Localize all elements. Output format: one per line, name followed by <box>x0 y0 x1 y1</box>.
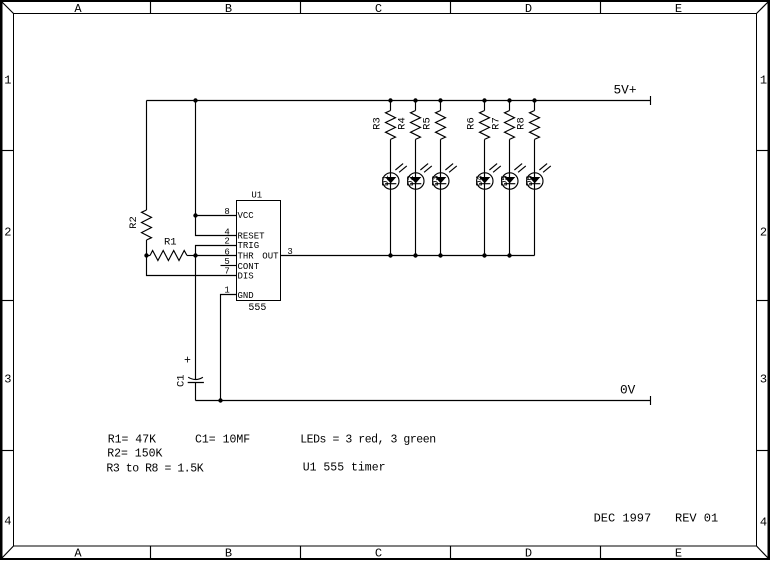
svg-text:R2= 150K: R2= 150K <box>107 448 162 461</box>
svg-text:D6: D6 <box>525 175 535 186</box>
svg-text:DEC 1997: DEC 1997 <box>594 512 652 526</box>
wire LED D6 to output bus <box>534 189 536 256</box>
U1 555 timer IC body <box>237 190 281 314</box>
junction dot output bus / D4 <box>482 253 486 257</box>
svg-text:C1= 10MF: C1= 10MF <box>195 434 250 447</box>
junction dot 5V+ rail / R5 <box>438 98 442 102</box>
svg-text:0V: 0V <box>620 382 636 397</box>
wire VCC pin 8 <box>196 215 237 217</box>
wire GND pin 1 to 0V rail <box>221 295 237 401</box>
resistor R1 <box>147 236 196 260</box>
wire R3 to LED D1 <box>390 139 392 173</box>
svg-text:GND: GND <box>238 291 254 301</box>
resistor R5 <box>422 111 446 140</box>
svg-text:5: 5 <box>224 257 229 267</box>
svg-text:555: 555 <box>248 303 266 314</box>
svg-text:R7: R7 <box>491 117 503 130</box>
resistor R4 <box>397 111 421 140</box>
svg-text:8: 8 <box>224 207 229 217</box>
junction dot output bus / D2 <box>413 253 417 257</box>
LED D4 <box>475 164 501 190</box>
junction dot output bus / D1 <box>388 253 392 257</box>
svg-text:VCC: VCC <box>238 211 255 221</box>
wire output bus pin 3 <box>281 255 535 257</box>
wire rail to R8 <box>534 101 536 111</box>
wire 5V+ rail down to R2 <box>146 101 148 211</box>
svg-text:U1: U1 <box>251 190 262 200</box>
svg-text:7: 7 <box>224 266 229 276</box>
node 5V+ rail <box>147 83 651 105</box>
resistor R3 <box>372 111 396 140</box>
wire R4 to LED D2 <box>415 139 417 173</box>
wire CONT pin 5 stub <box>221 265 237 267</box>
svg-text:D3: D3 <box>431 175 441 186</box>
junction dot 0V rail / GND branch <box>218 398 222 402</box>
svg-text:B: B <box>225 547 232 560</box>
junction dot output bus / D5 <box>507 253 511 257</box>
wire LED D3 to output bus <box>440 189 442 256</box>
svg-text:4: 4 <box>760 515 767 529</box>
wire C1 to 0V rail <box>195 383 197 401</box>
resistor R2 <box>128 210 152 240</box>
svg-text:R4: R4 <box>397 117 409 130</box>
capacitor C1 <box>175 355 204 388</box>
wire R7 to LED D5 <box>509 139 511 173</box>
svg-text:R3: R3 <box>372 117 384 130</box>
svg-text:3: 3 <box>4 372 11 386</box>
svg-text:R1: R1 <box>164 236 177 248</box>
svg-text:B: B <box>225 2 232 16</box>
wire 5V+ vertical to VCC/RESET <box>196 101 237 236</box>
junction dot 5V+ rail / R7 <box>507 98 511 102</box>
wire rail to R5 <box>440 101 442 111</box>
svg-text:TRIG: TRIG <box>238 241 260 251</box>
junction dot 5V+ rail / R4 <box>413 98 417 102</box>
svg-text:CONT: CONT <box>238 262 260 272</box>
svg-text:R6: R6 <box>466 117 478 130</box>
resistor R6 <box>466 111 490 140</box>
LED D3 <box>431 164 457 190</box>
svg-text:3: 3 <box>760 373 767 387</box>
wire rail to R3 <box>390 101 392 111</box>
wire LED D1 to output bus <box>390 189 392 256</box>
wire TRIG pin 2 to node B and down to C1 <box>196 246 237 380</box>
wire THR pin 6 to node B <box>196 255 237 257</box>
svg-text:2: 2 <box>224 237 229 247</box>
resistor R7 <box>491 111 515 140</box>
svg-text:1: 1 <box>224 286 229 296</box>
svg-text:5V+: 5V+ <box>614 83 637 98</box>
LED D2 <box>406 164 432 190</box>
junction dot 5V+ rail / R3 <box>388 98 392 102</box>
svg-text:E: E <box>675 2 682 16</box>
svg-text:R8: R8 <box>516 117 528 130</box>
svg-text:2: 2 <box>760 226 767 240</box>
wire R5 to LED D3 <box>440 139 442 173</box>
wire LED D4 to output bus <box>484 189 486 256</box>
svg-text:OUT: OUT <box>262 252 279 262</box>
svg-text:2: 2 <box>4 225 11 239</box>
svg-text:1: 1 <box>760 74 767 88</box>
svg-text:D5: D5 <box>500 175 510 186</box>
wire rail to R6 <box>484 101 486 111</box>
junction dot output bus / D3 <box>438 253 442 257</box>
wire node A to DIS pin 7 <box>147 256 237 276</box>
wire rail to R4 <box>415 101 417 111</box>
junction dot 5V+ rail / R6 <box>482 98 486 102</box>
wire LED D2 to output bus <box>415 189 417 256</box>
junction dot 5V+ rail / R8 <box>532 98 536 102</box>
wire rail to R7 <box>509 101 511 111</box>
junction dot VCC tap <box>193 213 197 217</box>
junction dot node B (R1/TRIG/THR/C1) <box>193 253 197 257</box>
svg-text:R5: R5 <box>422 117 434 130</box>
svg-text:4: 4 <box>4 514 11 528</box>
LED D1 <box>381 164 407 190</box>
LED D5 <box>500 164 526 190</box>
svg-text:U1 555 timer: U1 555 timer <box>303 461 386 474</box>
svg-text:R2: R2 <box>128 216 140 229</box>
svg-text:D: D <box>525 547 532 560</box>
resistor R8 <box>516 111 540 140</box>
node 0V rail <box>196 382 651 405</box>
svg-text:E: E <box>675 547 682 560</box>
junction dot 5V+ rail / vertical to U1 <box>193 98 197 102</box>
wire R8 to LED D6 <box>534 139 536 173</box>
svg-text:C: C <box>375 547 382 560</box>
svg-text:1: 1 <box>4 73 11 87</box>
svg-text:LEDs = 3 red, 3 green: LEDs = 3 red, 3 green <box>300 434 435 447</box>
svg-text:REV 01: REV 01 <box>675 512 718 526</box>
svg-text:+: + <box>184 355 191 368</box>
svg-text:C: C <box>375 2 382 16</box>
svg-text:THR: THR <box>238 252 255 262</box>
wire LED D5 to output bus <box>509 189 511 256</box>
wire R6 to LED D4 <box>484 139 486 173</box>
svg-text:DIS: DIS <box>238 272 254 282</box>
svg-text:R1= 47K: R1= 47K <box>108 434 156 447</box>
junction dot node A (R1/R2/DIS) <box>144 253 148 257</box>
LED D6 <box>525 164 551 190</box>
svg-text:D4: D4 <box>475 175 485 186</box>
svg-text:A: A <box>74 2 82 16</box>
svg-text:D1: D1 <box>381 175 391 186</box>
svg-text:D: D <box>525 2 532 16</box>
wire R2 to node A <box>146 240 148 256</box>
svg-text:RESET: RESET <box>238 231 266 241</box>
svg-text:A: A <box>74 547 82 560</box>
svg-text:R3 to R8 = 1.5K: R3 to R8 = 1.5K <box>106 463 203 476</box>
svg-text:C1: C1 <box>175 374 187 387</box>
svg-text:D2: D2 <box>406 175 416 186</box>
